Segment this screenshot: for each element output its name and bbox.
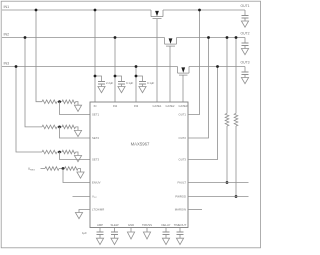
wire OUT1 rail (163, 9, 245, 11)
ground (162, 238, 169, 244)
wire IN2 rail (2, 37, 165, 39)
n-channel MOSFET pass transistor Q1 (150, 10, 152, 17)
ground (111, 238, 118, 244)
svg-text:IN3: IN3 (134, 104, 139, 108)
svg-text:IN2: IN2 (113, 104, 118, 108)
svg-text:MARGIN: MARGIN (175, 208, 186, 212)
wire VCC stub (73, 196, 91, 198)
svg-text:OUT1: OUT1 (241, 4, 250, 8)
n-channel MOSFET pass transistor Q2 (164, 38, 166, 45)
wire IN2 to chip IN2 pin (114, 38, 116, 103)
wire OUT1 sense to chip (188, 10, 200, 115)
ground (77, 172, 84, 178)
capacitor on OUT3 output (244, 67, 246, 73)
svg-text:0.1µF: 0.1µF (126, 81, 133, 85)
svg-text:OUT3: OUT3 (241, 60, 250, 64)
resistor SET1 divider lower (62, 100, 76, 104)
svg-text:IN3: IN3 (4, 62, 10, 66)
resistor SET3 divider upper (42, 150, 57, 154)
resistor FAULT pull-up (226, 38, 228, 114)
node SET3 (58, 151, 61, 154)
svg-text:IN1: IN1 (4, 5, 10, 9)
svg-text:MAX5967: MAX5967 (131, 141, 150, 146)
wire SET3 divider feed (16, 67, 42, 153)
capacitor on DELAY (165, 228, 167, 233)
resistor EN/UV divider upper (45, 167, 59, 171)
svg-text:OUT1: OUT1 (179, 113, 187, 117)
svg-text:TIMEOUT: TIMEOUT (174, 223, 187, 227)
svg-text:TRK/SS: TRK/SS (142, 223, 152, 227)
svg-text:SET1: SET1 (92, 113, 99, 117)
ground (176, 238, 183, 244)
n-channel MOSFET pass transistor Q3 (177, 67, 179, 74)
wire SET1 divider feed (36, 10, 42, 102)
capacitor on OUT2 output (244, 38, 246, 44)
svg-text:IN: IN (94, 104, 97, 108)
svg-text:GATE2: GATE2 (166, 104, 175, 108)
wire PWRGD (188, 196, 249, 198)
svg-text:SET3: SET3 (92, 158, 99, 162)
svg-text:OUT2: OUT2 (179, 136, 187, 140)
ground GND pin (130, 228, 132, 233)
wire SET3 to chip (60, 152, 91, 160)
resistor SET2 divider lower (62, 125, 76, 129)
wire EN/UV to chip (63, 169, 90, 183)
svg-text:AMP: AMP (97, 223, 103, 227)
ground (241, 78, 248, 84)
svg-text:EN/UV: EN/UV (92, 181, 101, 185)
resistor PWRGD pull-up (235, 38, 237, 114)
node EN/UV divider tap (62, 167, 65, 170)
svg-text:IN2: IN2 (4, 33, 10, 37)
wire OUT2 sense to chip (188, 38, 209, 139)
ground (74, 130, 81, 136)
svg-text:PWRGD: PWRGD (175, 195, 186, 199)
wire MARGIN stub (188, 209, 202, 211)
svg-text:SET2: SET2 (92, 136, 99, 140)
capacitor on TIMEOUT (179, 228, 181, 233)
ground (74, 156, 81, 162)
wire IN3 rail (2, 66, 178, 68)
resistor SET2 divider upper (42, 125, 57, 129)
wire OUT3 rail (189, 66, 245, 68)
svg-text:1µF: 1µF (82, 231, 87, 235)
wire FAULT (188, 182, 249, 184)
svg-text:0.1µF: 0.1µF (147, 81, 154, 85)
svg-text:GATE1: GATE1 (153, 104, 162, 108)
capacitor 0.1uF on IN2 (115, 76, 122, 82)
wire OUT3 sense to chip (188, 67, 218, 160)
node SET1 (58, 100, 61, 103)
capacitor 2.2uF on IN (95, 76, 102, 82)
wire OUT2 rail (177, 37, 246, 39)
resistor SET1 divider upper (42, 100, 57, 104)
wire VREG lead (41, 168, 46, 170)
wire SET1 to chip (60, 102, 91, 115)
svg-text:DELAY: DELAY (162, 223, 171, 227)
svg-text:GND: GND (128, 223, 134, 227)
capacitor 0.1uF on IN3 (136, 76, 143, 82)
ground (241, 49, 248, 55)
wire IN3 to chip IN3 pin (135, 67, 137, 103)
svg-text:2.2µF: 2.2µF (106, 81, 113, 85)
ground (241, 21, 248, 27)
resistor EN/UV divider lower (65, 167, 79, 171)
svg-text:SLEW: SLEW (111, 223, 119, 227)
svg-text:OUT3: OUT3 (179, 158, 187, 162)
wire IN1 to chip IN pin (94, 10, 96, 102)
op-amp U1 MAX5967 triple tracker/sequencer (90, 102, 188, 228)
ground TRK/SS pin (146, 228, 148, 233)
wire SET2 divider feed (25, 38, 42, 127)
wire SET2 to chip (60, 127, 91, 138)
svg-text:OUT2: OUT2 (241, 31, 250, 35)
ground (74, 105, 81, 111)
svg-text:GATE3: GATE3 (179, 104, 188, 108)
svg-text:LTCH/MR: LTCH/MR (92, 208, 104, 212)
ground (75, 213, 82, 219)
capacitor on OUT1 output (244, 10, 246, 16)
capacitor on SLEW (114, 228, 116, 233)
node SET2 (58, 126, 61, 129)
wire LTCH/MR to ground (79, 210, 90, 213)
ground (96, 238, 103, 244)
resistor SET3 divider lower (62, 150, 76, 154)
wire IN1 rail (2, 9, 151, 11)
svg-text:FAULT: FAULT (178, 181, 187, 185)
